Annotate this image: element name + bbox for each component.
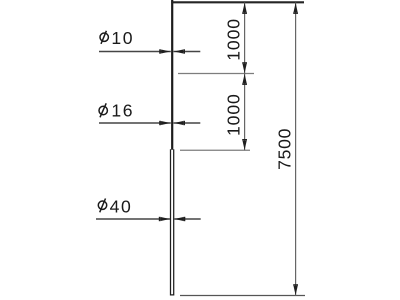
arrow at tube right d40 (174, 217, 185, 221)
dimension line 1000 lower (244, 74, 246, 151)
leader line d16 right (174, 122, 201, 124)
svg-text:40: 40 (110, 196, 133, 216)
mast upper section rod (171, 0, 173, 150)
diameter symbol d16 (99, 103, 107, 117)
arrow down 1000 upper (242, 62, 247, 73)
arrow at rod right d10 (174, 49, 185, 53)
arrow at rod left d16 (159, 121, 170, 125)
svg-text:7500: 7500 (274, 128, 294, 170)
svg-text:1000: 1000 (223, 18, 243, 61)
extension line top (171, 1, 304, 3)
arrow up 7500 (293, 3, 298, 14)
leader line d10 right (174, 51, 201, 53)
arrow down 7500 (293, 284, 298, 295)
arrow at rod right d16 (174, 121, 185, 125)
arrow up 1000 lower (242, 74, 247, 85)
extension line at 2000 mark (180, 149, 250, 151)
leader line d40 right (174, 218, 201, 220)
leader line d40 left (96, 218, 170, 220)
arrow down 1000 lower (242, 139, 247, 150)
leader line d16 left (99, 122, 171, 124)
svg-text:1000: 1000 (223, 93, 243, 136)
svg-text:10: 10 (111, 28, 134, 48)
arrow at rod left d10 (159, 49, 170, 53)
diameter symbol d10 (100, 31, 108, 44)
leader line d10 left (99, 51, 171, 53)
arrow at tube left d40 (159, 217, 170, 221)
dimension line 1000 upper (244, 3, 246, 74)
extension line at 1000 mark (178, 73, 254, 75)
svg-text:16: 16 (111, 100, 134, 120)
dimension line 7500 (295, 3, 297, 296)
mast lower tube section d40 (171, 149, 174, 295)
diameter symbol d40 (98, 199, 106, 213)
arrow up 1000 upper (242, 3, 247, 14)
extension line bottom (180, 295, 305, 297)
